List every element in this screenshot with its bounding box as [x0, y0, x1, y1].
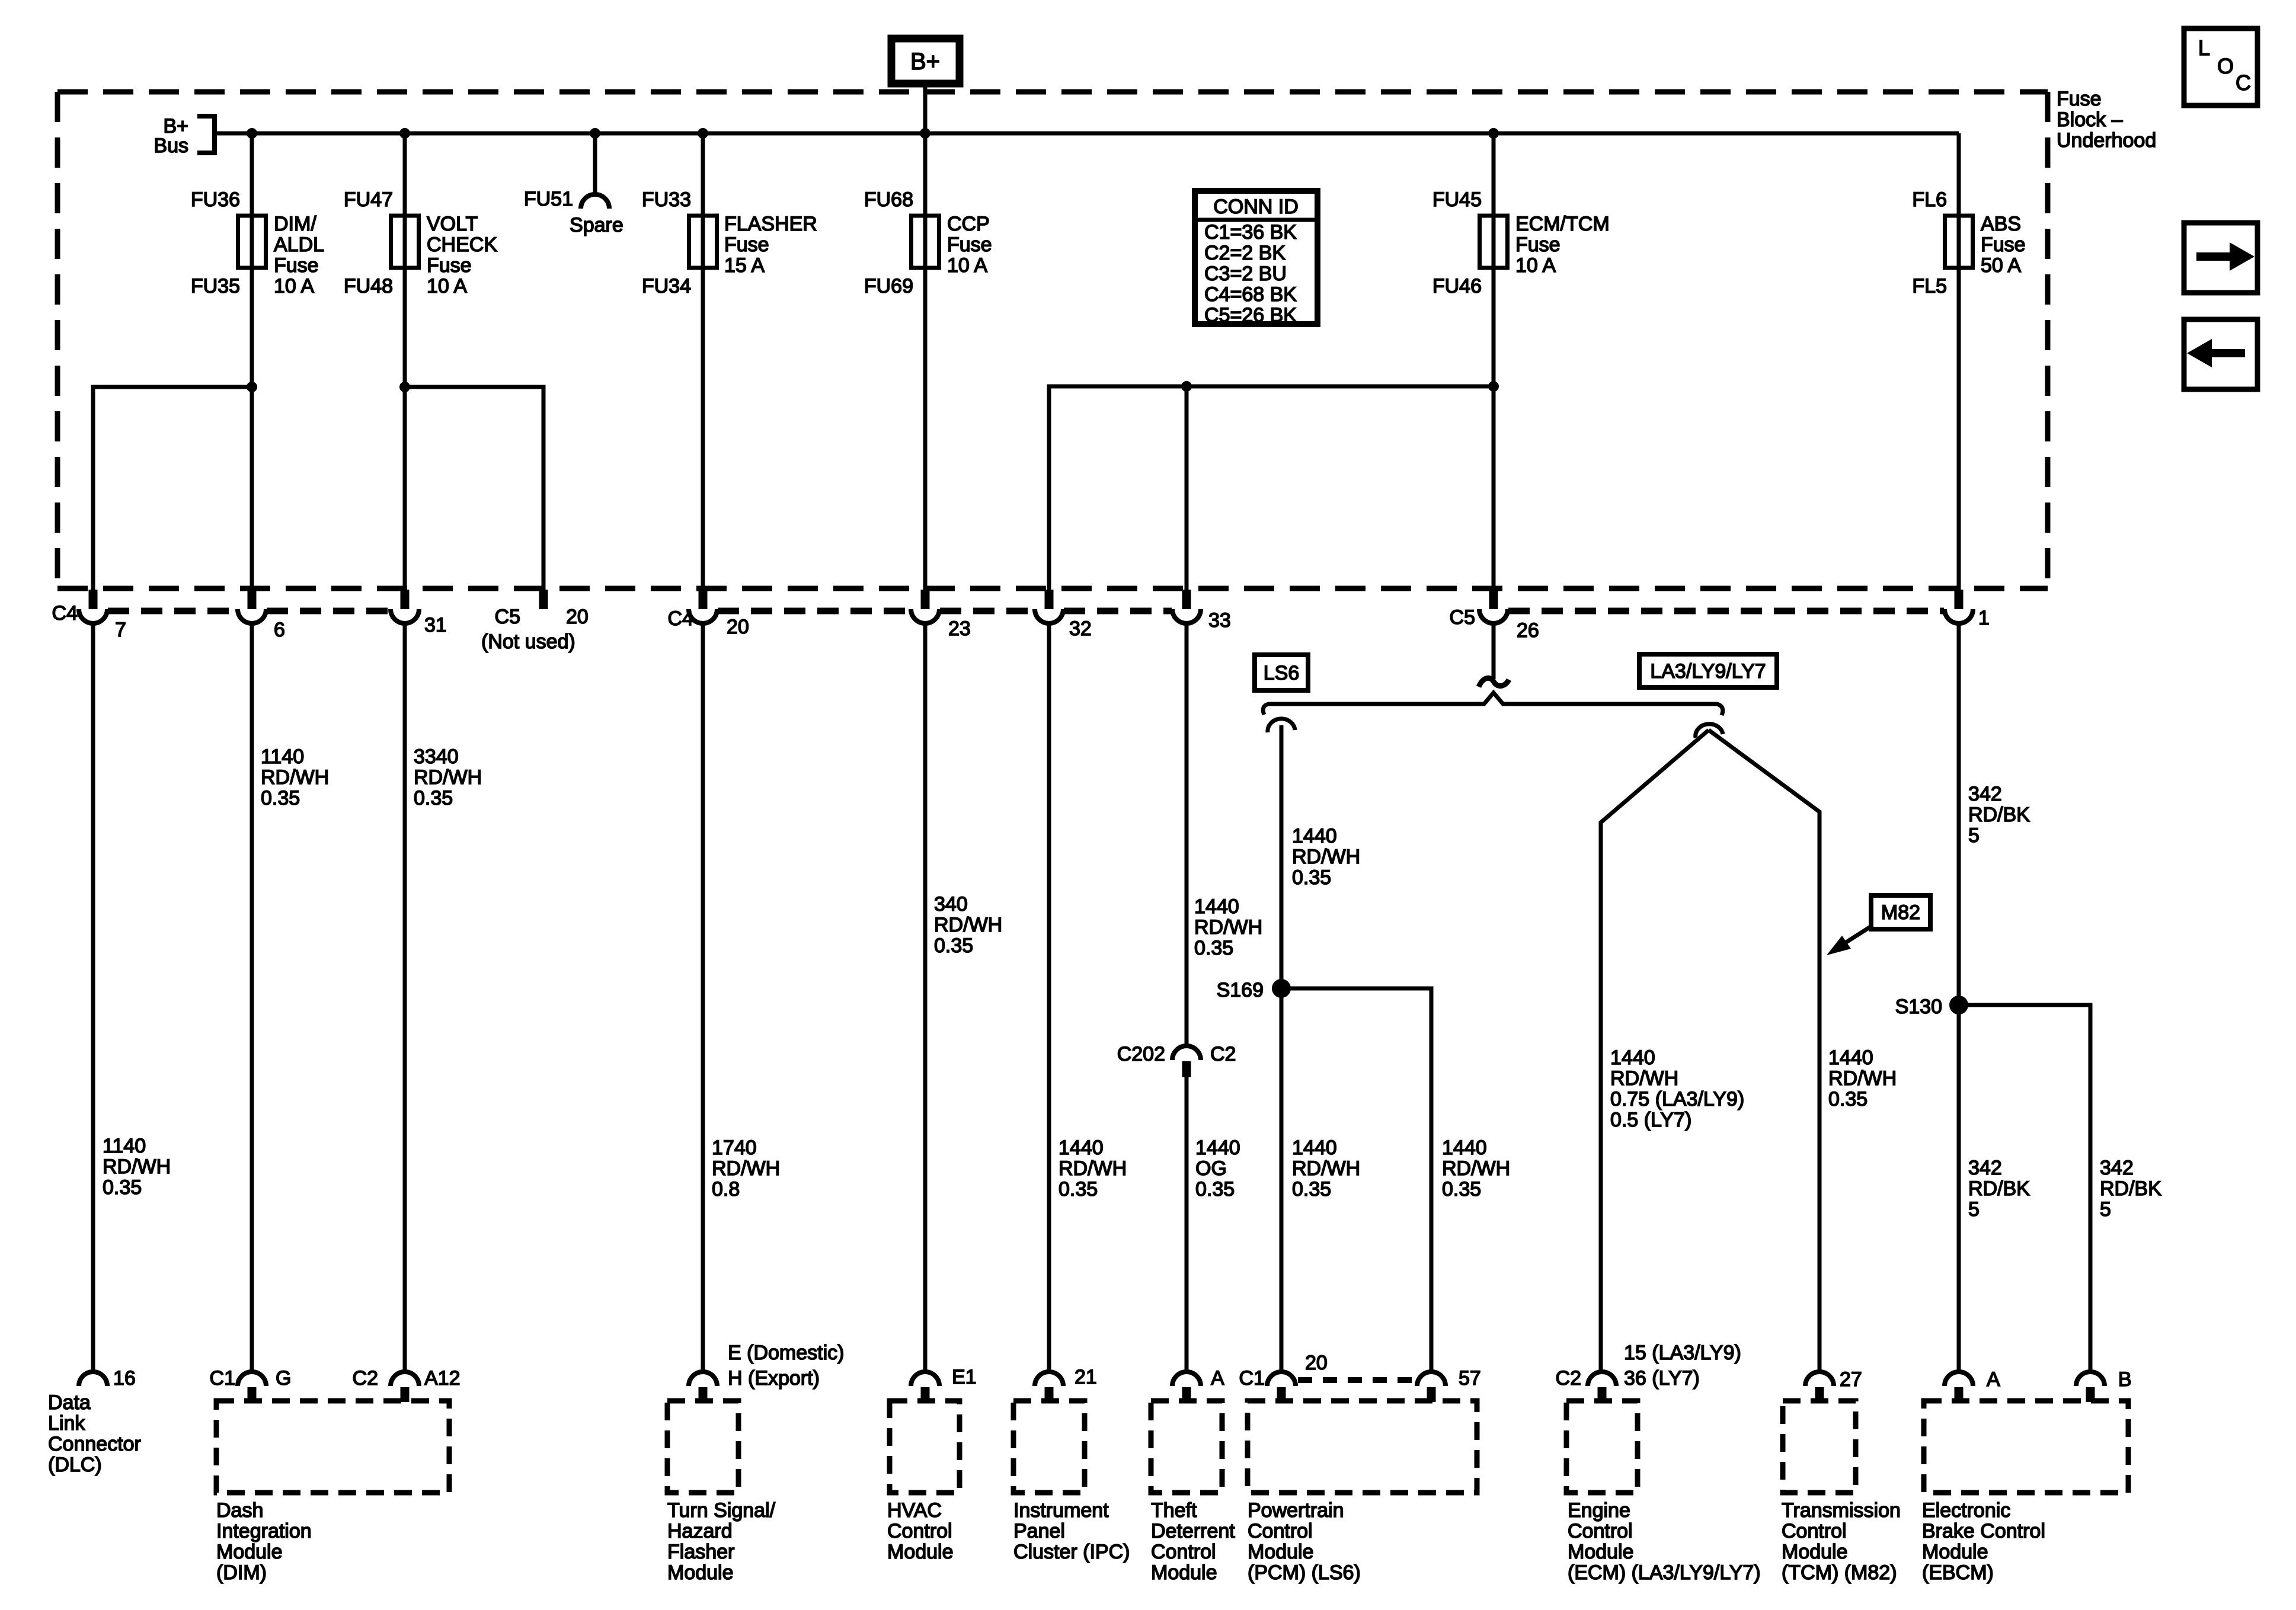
svg-text:0.35: 0.35	[934, 934, 973, 957]
connector C4 pin 31	[391, 590, 419, 623]
svg-text:ALDL: ALDL	[274, 233, 324, 256]
svg-text:0.75 (LA3/LY9): 0.75 (LA3/LY9)	[1610, 1088, 1744, 1110]
svg-text:5: 5	[1968, 824, 1980, 847]
svg-text:0.35: 0.35	[1828, 1088, 1868, 1110]
svg-text:Fuse: Fuse	[274, 254, 319, 277]
svg-text:RD/WH: RD/WH	[1059, 1157, 1127, 1180]
svg-text:(DIM): (DIM)	[216, 1561, 267, 1584]
svg-text:FU51: FU51	[524, 188, 573, 210]
connector C202 C2	[1172, 1046, 1201, 1077]
svg-text:C5=26 BK: C5=26 BK	[1204, 304, 1297, 327]
svg-text:0.35: 0.35	[1292, 1178, 1331, 1201]
label Electronic Brake Control Module EBCM	[1922, 1499, 2045, 1584]
svg-text:HVAC: HVAC	[887, 1499, 942, 1522]
connector C4 pin 33	[1172, 590, 1201, 623]
label HVAC Control Module	[887, 1499, 954, 1563]
fuse FU33/FU34 FLASHER	[689, 216, 717, 268]
connector TCM pin 27	[1805, 1372, 1834, 1402]
svg-text:RD/WH: RD/WH	[103, 1156, 171, 1178]
svg-text:C: C	[2236, 71, 2251, 95]
fuse FU68/FU69 CCP	[912, 216, 939, 268]
label 1140 RD/WH 0.35 DIM	[261, 745, 329, 809]
svg-text:57: 57	[1459, 1367, 1481, 1390]
svg-text:50 A: 50 A	[1981, 254, 2021, 277]
svg-text:1440: 1440	[1610, 1046, 1655, 1069]
wire split to C5-20	[405, 387, 543, 590]
svg-text:Electronic: Electronic	[1922, 1499, 2010, 1522]
label 340 RD/WH 0.35	[934, 893, 1002, 957]
svg-text:B+: B+	[910, 49, 940, 75]
wire FU45 branch	[1492, 133, 1496, 590]
svg-text:0.35: 0.35	[1442, 1178, 1481, 1201]
label ECM/TCM Fuse 10 A	[1515, 213, 1610, 277]
module box EBCM	[1924, 1401, 2128, 1493]
svg-text:RD/WH: RD/WH	[712, 1157, 780, 1180]
connector C5 link dotted	[1508, 608, 1944, 614]
svg-text:Module: Module	[1248, 1541, 1314, 1563]
svg-text:342: 342	[1968, 1157, 2002, 1179]
wire 3340 to DIM C2	[403, 623, 407, 1372]
svg-text:Turn Signal/: Turn Signal/	[667, 1499, 776, 1522]
svg-text:C2=2 BK: C2=2 BK	[1204, 242, 1285, 264]
svg-text:VOLT: VOLT	[427, 213, 478, 235]
svg-text:C3=2 BU: C3=2 BU	[1204, 263, 1287, 285]
option box LA3/LY9/LY7	[1639, 654, 1777, 687]
svg-text:DIM/: DIM/	[274, 213, 316, 235]
svg-text:Fuse: Fuse	[947, 233, 992, 256]
svg-text:1740: 1740	[712, 1137, 757, 1159]
module box TCM	[1783, 1401, 1856, 1493]
svg-text:5: 5	[1968, 1198, 1980, 1221]
svg-text:H (Export): H (Export)	[728, 1367, 820, 1390]
svg-text:RD/BK: RD/BK	[2100, 1177, 2161, 1200]
connector C4 link dotted left	[108, 608, 390, 614]
connector C4 pin 7	[79, 590, 107, 623]
svg-text:C5: C5	[1450, 606, 1475, 629]
svg-text:Module: Module	[216, 1541, 283, 1563]
label 1440 RD/WH 0.35 PCM57	[1442, 1137, 1510, 1201]
wire break tilde	[1479, 678, 1509, 687]
svg-text:10 A: 10 A	[274, 275, 314, 297]
svg-text:Spare: Spare	[570, 214, 623, 236]
connector C4 pin 32	[1035, 590, 1063, 623]
label Dash Integration Module	[216, 1499, 312, 1584]
svg-text:15 (LA3/LY9): 15 (LA3/LY9)	[1624, 1342, 1741, 1364]
svg-text:A12: A12	[424, 1367, 461, 1390]
svg-text:FU35: FU35	[191, 275, 240, 297]
svg-text:FL5: FL5	[1912, 275, 1947, 297]
connector C4 pin 20	[689, 590, 717, 623]
svg-text:1440: 1440	[1828, 1046, 1873, 1069]
svg-text:C2: C2	[1556, 1367, 1581, 1390]
svg-text:27: 27	[1840, 1368, 1862, 1391]
wire FU51 spare stub	[593, 133, 597, 196]
label Transmission Control Module TCM M82	[1782, 1499, 1901, 1584]
svg-text:FU34: FU34	[642, 275, 691, 297]
junction bus-FU51	[590, 128, 600, 139]
svg-text:C1: C1	[1239, 1367, 1265, 1390]
svg-text:C5: C5	[495, 606, 520, 628]
wire FU68 branch	[923, 133, 928, 590]
svg-text:LS6: LS6	[1264, 662, 1300, 684]
svg-text:C1=36 BK: C1=36 BK	[1204, 221, 1297, 244]
svg-text:Brake Control: Brake Control	[1922, 1520, 2045, 1542]
svg-text:0.35: 0.35	[103, 1176, 142, 1199]
svg-text:Module: Module	[1568, 1541, 1634, 1563]
svg-text:1440: 1440	[1442, 1137, 1487, 1159]
svg-text:C4=68 BK: C4=68 BK	[1204, 283, 1297, 306]
fuse FU36/FU35 DIM/ALDL	[238, 216, 266, 268]
svg-text:0.35: 0.35	[1059, 1178, 1098, 1201]
B+ bus bracket	[197, 116, 215, 153]
label 342 RD/BK 5 upper	[1968, 783, 2030, 847]
svg-text:0.35: 0.35	[261, 787, 300, 809]
label 1440 RD/WH 0.35 LS6	[1292, 825, 1360, 889]
svg-text:Cluster (IPC): Cluster (IPC)	[1013, 1541, 1130, 1563]
svg-text:FLASHER: FLASHER	[724, 213, 817, 235]
svg-text:20: 20	[1305, 1352, 1328, 1374]
arrow box right	[2184, 223, 2257, 293]
svg-text:FU46: FU46	[1432, 275, 1482, 297]
label Powertrain Control Module PCM LS6	[1248, 1499, 1361, 1584]
svg-text:36 (LY7): 36 (LY7)	[1624, 1367, 1700, 1390]
svg-text:32: 32	[1069, 617, 1092, 640]
label 342 RD/BK 5 pin A	[1968, 1157, 2030, 1221]
svg-text:Block –: Block –	[2057, 108, 2123, 131]
svg-text:(EBCM): (EBCM)	[1922, 1561, 1994, 1584]
svg-text:342: 342	[1968, 783, 2002, 805]
svg-text:Connector: Connector	[48, 1433, 141, 1455]
svg-text:33: 33	[1208, 609, 1231, 632]
wire 1440 OG to theft module	[1185, 1077, 1189, 1372]
svg-text:C4: C4	[52, 602, 78, 625]
svg-text:Fuse: Fuse	[724, 233, 769, 256]
connector C4 link dotted right	[718, 608, 1172, 614]
svg-text:342: 342	[2100, 1157, 2134, 1179]
svg-text:1140: 1140	[103, 1135, 146, 1157]
svg-text:FU45: FU45	[1432, 188, 1482, 211]
svg-text:1140: 1140	[261, 745, 304, 768]
svg-text:RD/WH: RD/WH	[414, 766, 482, 789]
label B+ Bus	[154, 115, 188, 157]
svg-text:Hazard: Hazard	[667, 1520, 733, 1542]
connector PCM pin 57	[1417, 1372, 1446, 1402]
label 1440 OG 0.35	[1195, 1137, 1240, 1201]
svg-text:C202: C202	[1117, 1043, 1165, 1065]
svg-text:FU47: FU47	[344, 188, 393, 211]
wire FU47 branch	[403, 133, 407, 387]
svg-text:0.5 (LY7): 0.5 (LY7)	[1610, 1109, 1691, 1131]
connector pin 1	[1945, 590, 1973, 623]
option box M82	[1871, 895, 1930, 929]
svg-text:(DLC): (DLC)	[48, 1454, 102, 1476]
svg-text:Fuse: Fuse	[1981, 233, 2026, 256]
label 1440 RD/WH 0.35 PCM20	[1292, 1137, 1360, 1201]
svg-text:7: 7	[115, 619, 126, 641]
svg-text:Fuse: Fuse	[1515, 233, 1560, 256]
svg-text:26: 26	[1517, 619, 1539, 642]
svg-text:1: 1	[1978, 607, 1990, 629]
branch brace line	[1263, 693, 1723, 715]
svg-text:CHECK: CHECK	[427, 233, 497, 256]
svg-text:10 A: 10 A	[947, 254, 987, 277]
svg-text:Deterrent: Deterrent	[1151, 1520, 1235, 1542]
svg-text:FU48: FU48	[344, 275, 393, 297]
svg-text:Control: Control	[1248, 1520, 1313, 1542]
junction bus-FU47	[399, 128, 410, 139]
junction rail-33	[1181, 381, 1192, 392]
arrow box left	[2184, 319, 2257, 389]
svg-text:Data: Data	[48, 1391, 91, 1414]
connector IPC pin 21	[1035, 1372, 1063, 1402]
wire B+ feed	[923, 84, 928, 133]
wire 1140 to DLC	[91, 623, 95, 1372]
connector EBCM pin B	[2076, 1372, 2105, 1402]
svg-text:ABS: ABS	[1981, 213, 2021, 235]
svg-text:L: L	[2198, 36, 2210, 60]
connector DLC pin 16	[79, 1372, 107, 1386]
svg-text:FL6: FL6	[1912, 188, 1947, 211]
module box theft deterrent	[1151, 1401, 1222, 1493]
svg-text:Module: Module	[1782, 1541, 1848, 1563]
label 3340 RD/WH 0.35	[414, 745, 482, 809]
svg-text:Fuse: Fuse	[2057, 88, 2102, 110]
label Theft Deterrent Control Module	[1151, 1499, 1235, 1584]
svg-text:RD/WH: RD/WH	[1292, 1157, 1360, 1180]
wire 1440 to IPC	[1047, 623, 1051, 1372]
label 342 RD/BK 5 pin B	[2100, 1157, 2161, 1221]
label Turn Signal Hazard Flasher Module	[667, 1499, 776, 1584]
svg-text:RD/WH: RD/WH	[1194, 916, 1262, 939]
wire LS6 branch upper	[1280, 725, 1284, 988]
wire ECM/TCM feed rail	[1049, 386, 1494, 590]
svg-text:FU68: FU68	[864, 188, 913, 211]
label CCP Fuse 10 A	[947, 213, 992, 277]
svg-text:A: A	[1987, 1368, 2000, 1391]
svg-text:5: 5	[2100, 1198, 2111, 1221]
connector C1 link dotted PCM	[1298, 1377, 1415, 1383]
connector PCM C1 pin 20	[1267, 1372, 1296, 1402]
junction FU48 split	[399, 382, 410, 392]
wire 1140 to DIM C1	[250, 623, 254, 1372]
junction bus-FU33	[698, 128, 708, 139]
svg-text:M82: M82	[1881, 901, 1920, 924]
svg-text:Control: Control	[1151, 1541, 1216, 1563]
module box PCM	[1248, 1401, 1477, 1493]
M82 pointer arrow	[1827, 926, 1872, 955]
label Engine Control Module ECM	[1568, 1499, 1761, 1584]
label 1440 RD/WH 0.35 IPC	[1059, 1137, 1127, 1201]
svg-text:CCP: CCP	[947, 213, 990, 235]
svg-text:Flasher: Flasher	[667, 1541, 734, 1563]
svg-text:(ECM) (LA3/LY9/LY7): (ECM) (LA3/LY9/LY7)	[1568, 1561, 1761, 1584]
svg-text:Engine: Engine	[1568, 1499, 1630, 1522]
svg-text:(PCM) (LS6): (PCM) (LS6)	[1248, 1561, 1361, 1584]
wire FU36 branch	[250, 133, 254, 387]
label 1140 RD/WH 0.35 DLC	[103, 1135, 171, 1199]
label 1440 RD/WH 0.35 TCM	[1828, 1046, 1897, 1110]
connector EBCM pin A	[1945, 1372, 1973, 1402]
svg-text:1440: 1440	[1292, 1137, 1337, 1159]
svg-text:3340: 3340	[414, 745, 459, 768]
B+ terminal box	[891, 39, 960, 84]
connector DIM C2 pin A12	[391, 1372, 419, 1402]
svg-text:20: 20	[566, 606, 589, 628]
label FLASHER Fuse 15 A	[724, 213, 817, 277]
wire LS6 branch to PCM 20	[1280, 988, 1284, 1372]
svg-text:RD/BK: RD/BK	[1968, 1177, 2030, 1200]
label Fuse Block - Underhood	[2057, 88, 2156, 152]
svg-text:S130: S130	[1895, 996, 1942, 1018]
svg-text:Powertrain: Powertrain	[1248, 1499, 1344, 1522]
svg-text:Link: Link	[48, 1412, 85, 1435]
CONN ID table	[1195, 191, 1318, 327]
svg-text:RD/WH: RD/WH	[934, 914, 1002, 936]
svg-text:15 A: 15 A	[724, 254, 765, 277]
svg-text:LA3/LY9/LY7: LA3/LY9/LY7	[1650, 660, 1766, 683]
connector C5 pin 26	[1479, 590, 1508, 623]
svg-text:10 A: 10 A	[427, 275, 467, 297]
wire FU35 to split	[250, 387, 254, 590]
junction FU35 split	[247, 382, 257, 392]
svg-text:0.35: 0.35	[1195, 1178, 1235, 1201]
svg-text:0.8: 0.8	[712, 1178, 740, 1201]
label Data Link Connector DLC	[48, 1391, 141, 1476]
wire S169 to PCM 57	[1281, 988, 1431, 1372]
connector C4 pin 23	[911, 590, 939, 623]
splice S130	[1949, 996, 1968, 1014]
svg-text:0.35: 0.35	[1194, 937, 1233, 959]
wire 342 to EBCM A	[1957, 623, 1961, 1372]
LOC legend box	[2184, 28, 2257, 105]
svg-text:RD/WH: RD/WH	[261, 766, 329, 789]
wire FU48 to split	[403, 387, 407, 590]
svg-text:23: 23	[948, 617, 971, 640]
svg-text:O: O	[2217, 54, 2234, 78]
svg-text:21: 21	[1075, 1366, 1097, 1388]
svg-text:16: 16	[113, 1367, 136, 1390]
svg-text:G: G	[276, 1367, 291, 1390]
svg-text:Integration: Integration	[216, 1520, 312, 1542]
label 1440 RD/WH 0.75 0.5	[1610, 1046, 1744, 1131]
svg-text:Module: Module	[1151, 1561, 1217, 1584]
svg-text:Module: Module	[1922, 1541, 1988, 1563]
module box ECM	[1566, 1401, 1638, 1493]
svg-text:C1: C1	[210, 1367, 235, 1390]
svg-text:E1: E1	[952, 1366, 977, 1388]
svg-text:0.35: 0.35	[1292, 866, 1331, 889]
svg-text:RD/WH: RD/WH	[1292, 846, 1360, 868]
wire FU33 branch	[701, 133, 705, 590]
svg-text:E (Domestic): E (Domestic)	[728, 1342, 844, 1364]
fuse FU47/FU48 VOLT CHECK	[391, 216, 419, 268]
junction rail-FU46	[1488, 381, 1499, 392]
svg-text:Theft: Theft	[1151, 1499, 1197, 1522]
branch start arc LA3	[1696, 724, 1723, 738]
wire chevron left leg to ECM	[1601, 730, 1709, 1372]
label 1440 RD/WH 0.35 theft	[1194, 895, 1262, 959]
svg-text:CONN ID: CONN ID	[1213, 196, 1299, 218]
svg-text:1440: 1440	[1059, 1137, 1104, 1159]
svg-text:Control: Control	[1568, 1520, 1633, 1542]
svg-text:Panel: Panel	[1013, 1520, 1065, 1542]
connector ECM C2 pin 15/36	[1588, 1372, 1616, 1402]
svg-text:FU36: FU36	[191, 188, 240, 211]
svg-text:Underhood: Underhood	[2057, 129, 2156, 152]
svg-text:20: 20	[727, 616, 749, 638]
svg-text:1440: 1440	[1195, 1137, 1240, 1159]
svg-text:C4: C4	[668, 607, 693, 630]
junction bus-B+	[920, 128, 930, 139]
svg-text:RD/WH: RD/WH	[1828, 1067, 1897, 1090]
svg-text:Control: Control	[887, 1520, 952, 1542]
svg-text:RD/WH: RD/WH	[1610, 1067, 1678, 1090]
label Instrument Panel Cluster	[1013, 1499, 1130, 1563]
wire 1740 to flasher module	[701, 623, 705, 1372]
connector DIM C1 pin G	[238, 1372, 266, 1402]
svg-text:0.35: 0.35	[414, 787, 453, 809]
module box HVAC	[890, 1401, 960, 1493]
svg-text:Control: Control	[1782, 1520, 1847, 1542]
svg-text:A: A	[1211, 1367, 1224, 1390]
wire B+ bus	[215, 132, 1959, 136]
connector C5 pin 20 not used	[539, 590, 548, 609]
svg-text:Transmission: Transmission	[1782, 1499, 1901, 1522]
wire C5-26 drop	[1492, 623, 1496, 679]
svg-text:6: 6	[274, 619, 285, 641]
svg-text:1440: 1440	[1292, 825, 1337, 847]
branch start arc LS6	[1268, 719, 1295, 732]
fuse FU45/FU46 ECM/TCM	[1480, 216, 1508, 268]
wire chevron right leg to TCM	[1709, 730, 1819, 1372]
label ABS Fuse 50 A	[1981, 213, 2026, 277]
wire FL6 branch	[1957, 133, 1961, 590]
wire split to C4-7	[93, 387, 252, 590]
svg-text:Dash: Dash	[216, 1499, 263, 1522]
module box IPC	[1013, 1401, 1085, 1493]
connector HVAC pin E1	[911, 1372, 939, 1402]
connector theft pin A	[1172, 1372, 1201, 1402]
svg-text:Module: Module	[667, 1561, 734, 1584]
svg-text:Instrument: Instrument	[1013, 1499, 1109, 1522]
wire 340 to HVAC	[923, 623, 928, 1372]
svg-text:RD/WH: RD/WH	[1442, 1157, 1510, 1180]
module box turn signal flasher	[667, 1401, 738, 1493]
junction bus-FU45	[1488, 128, 1499, 139]
junction bus-FU36	[247, 128, 257, 139]
wire rail to conn 33	[1185, 386, 1189, 590]
module box DIM	[216, 1401, 449, 1493]
wire 1440 to C202	[1185, 623, 1189, 1046]
svg-text:C2: C2	[353, 1367, 378, 1390]
option box LS6	[1255, 655, 1308, 690]
svg-text:C2: C2	[1210, 1043, 1236, 1065]
label DIM/ALDL Fuse 10 A	[274, 213, 324, 297]
wire S130 to EBCM B	[1959, 1005, 2090, 1372]
svg-text:(Not used): (Not used)	[481, 630, 575, 653]
connector C4 pin 6	[238, 590, 266, 623]
fuse FL6/FL5 ABS	[1945, 216, 1973, 268]
svg-text:Module: Module	[887, 1541, 954, 1563]
fuse block underhood dashed border	[57, 92, 2048, 588]
svg-text:B: B	[2118, 1368, 2132, 1391]
label 1740 RD/WH 0.8	[712, 1137, 780, 1201]
label VOLT CHECK Fuse 10 A	[427, 213, 497, 297]
svg-text:FU69: FU69	[864, 275, 913, 297]
svg-text:31: 31	[424, 614, 447, 636]
splice S169	[1272, 979, 1291, 998]
svg-text:FU33: FU33	[642, 188, 691, 211]
